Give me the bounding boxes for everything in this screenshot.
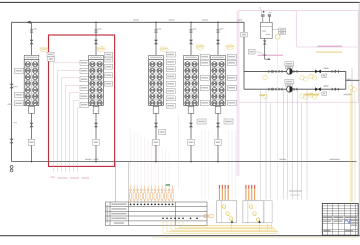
flange joint on riser A2 xyxy=(95,29,98,30)
vent valves xyxy=(261,15,264,17)
instrument cloud of unit A4 xyxy=(196,45,204,50)
pump P2 xyxy=(287,86,293,92)
label box on downcomer A5 xyxy=(215,139,221,145)
isolation valves (upper) xyxy=(332,70,336,73)
yellow instrument ring at vessel xyxy=(275,34,280,39)
flange joint on riser A5 xyxy=(217,29,220,30)
valve on riser A5 xyxy=(216,40,220,44)
pink wire end labels xyxy=(51,177,56,178)
small note above title block xyxy=(289,190,302,191)
valve on left riser upper xyxy=(10,84,14,88)
check valve (upper) xyxy=(315,70,318,74)
signal wires to table columns xyxy=(130,128,132,186)
pump P1 xyxy=(287,69,293,75)
pump P2 tag boxes xyxy=(285,80,294,84)
table column signals xyxy=(130,186,132,193)
yellow annotation dashes xyxy=(316,52,342,53)
valve on downcomer A2 xyxy=(94,123,98,127)
valve on riser A3 xyxy=(154,40,158,44)
yellow instrument rings pump area xyxy=(263,75,267,79)
approval signature xyxy=(345,220,351,224)
instrument cloud of unit A3 xyxy=(160,47,168,52)
wire: top header gas bus xyxy=(12,22,244,161)
pump P1 tag boxes xyxy=(285,62,294,66)
wire: downcomer of unit A5 xyxy=(217,113,219,161)
air cooler bank A4 xyxy=(184,55,199,113)
drain symbol bottom left xyxy=(10,166,13,169)
tag boxes right of unit A3 xyxy=(166,52,175,57)
flange joint on riser A3 xyxy=(155,29,158,30)
yellow drops right side xyxy=(350,90,352,202)
border frame top xyxy=(0,1,360,3)
valve on downcomer A1 xyxy=(30,123,34,127)
valve on riser A1 xyxy=(30,40,34,44)
wire: riser to cooler unit A3 xyxy=(155,22,157,55)
orange cable bars cluster A xyxy=(219,185,220,188)
wire: pump discharge header xyxy=(345,71,347,89)
border frame right xyxy=(358,2,360,235)
valve on downcomer A4 xyxy=(189,123,193,127)
tag boxes left of unit A2 xyxy=(80,60,89,65)
faint drop from A3 tags xyxy=(178,115,180,190)
valve on left riser lower xyxy=(10,139,14,143)
control cabinet box 1 xyxy=(217,201,237,223)
pink boundary label xyxy=(318,46,343,47)
valve on downcomer A3 xyxy=(154,123,158,127)
gray drop right side xyxy=(351,68,353,202)
valves left of pump (upper) xyxy=(268,70,272,73)
vessel V1 xyxy=(260,22,272,38)
signal I/O table xyxy=(105,202,207,225)
service/signal drops from pump skid xyxy=(260,89,262,199)
pink plant boundary xyxy=(237,11,358,176)
wire: downcomer of unit A1 xyxy=(31,113,33,161)
check valve (lower) xyxy=(315,87,318,91)
instrument cloud of unit A2 xyxy=(97,47,105,52)
valve on riser A4 xyxy=(189,40,193,44)
wire: riser to cooler unit A1 xyxy=(31,22,33,55)
valve on riser A2 xyxy=(94,40,98,44)
flange joint on riser A4 xyxy=(190,29,193,30)
wire: bottom collector bus xyxy=(12,161,357,163)
wire: lower pump line xyxy=(244,88,346,90)
red highlight rectangle around unit 2 xyxy=(49,35,115,166)
vent stubs on vessel xyxy=(262,16,264,22)
tag boxes right of unit A2 xyxy=(105,52,113,57)
label box on downcomer A3 xyxy=(153,139,159,145)
wire: downcomer of unit A3 xyxy=(155,113,157,161)
air cooler bank A5 xyxy=(211,55,226,113)
valves left of pump (lower) xyxy=(268,88,272,91)
vessel drain line xyxy=(264,38,266,59)
yellow cable runs xyxy=(183,225,272,227)
air cooler bank A2 xyxy=(89,55,104,113)
label box on downcomer A2 xyxy=(93,139,99,145)
border frame bottom xyxy=(0,235,360,237)
flange joint on riser A1 xyxy=(30,29,33,30)
tag boxes right of unit A5 xyxy=(227,54,236,59)
wire: riser to cooler unit A5 xyxy=(217,22,219,55)
gray feeders from bus xyxy=(115,162,117,202)
valve right of pump (lower) xyxy=(294,88,298,91)
instrument cloud of unit A5 xyxy=(226,45,234,50)
green note xyxy=(166,184,171,186)
wire: header to pump skid riser xyxy=(243,22,245,89)
label box on downcomer A1 xyxy=(28,139,34,145)
air cooler bank A3 xyxy=(149,55,164,113)
bus dimension labels xyxy=(133,20,139,21)
yellow margin line xyxy=(152,237,358,239)
cabinet outgoing arrows xyxy=(231,220,233,222)
air cooler bank A1 xyxy=(24,55,39,113)
control cabinet box 3 xyxy=(264,201,272,223)
label box on riser xyxy=(241,32,247,37)
instrument cloud of unit A1 xyxy=(40,47,48,52)
table outlet dots xyxy=(162,218,164,220)
cabinet instrument glyphs xyxy=(222,205,225,208)
wire: upper pump line xyxy=(244,70,346,72)
label box on downcomer A4 xyxy=(188,139,194,145)
signal wires from unit A2 tags xyxy=(54,63,81,172)
tag boxes top right of unit A1 xyxy=(47,52,54,56)
wire: riser to cooler unit A4 xyxy=(190,22,192,55)
orange cable bars cluster B xyxy=(245,185,246,188)
title block xyxy=(322,203,358,235)
small orange tags left of cabinets xyxy=(204,215,208,218)
tag boxes left of unit A1 xyxy=(15,68,24,73)
wire: riser to cooler unit A2 xyxy=(95,22,97,55)
isolation valves (lower) xyxy=(332,88,336,91)
wire: downcomer of unit A4 xyxy=(190,113,192,161)
wire: downcomer of unit A2 xyxy=(95,113,97,161)
valve right of pump (upper) xyxy=(294,70,298,73)
flow arrow on header bus xyxy=(26,21,31,24)
tag boxes right of unit A4 xyxy=(200,54,209,59)
control cabinet box 2 xyxy=(243,201,264,223)
valve on downcomer A5 xyxy=(216,123,220,127)
vessel tag boxes xyxy=(272,28,279,30)
